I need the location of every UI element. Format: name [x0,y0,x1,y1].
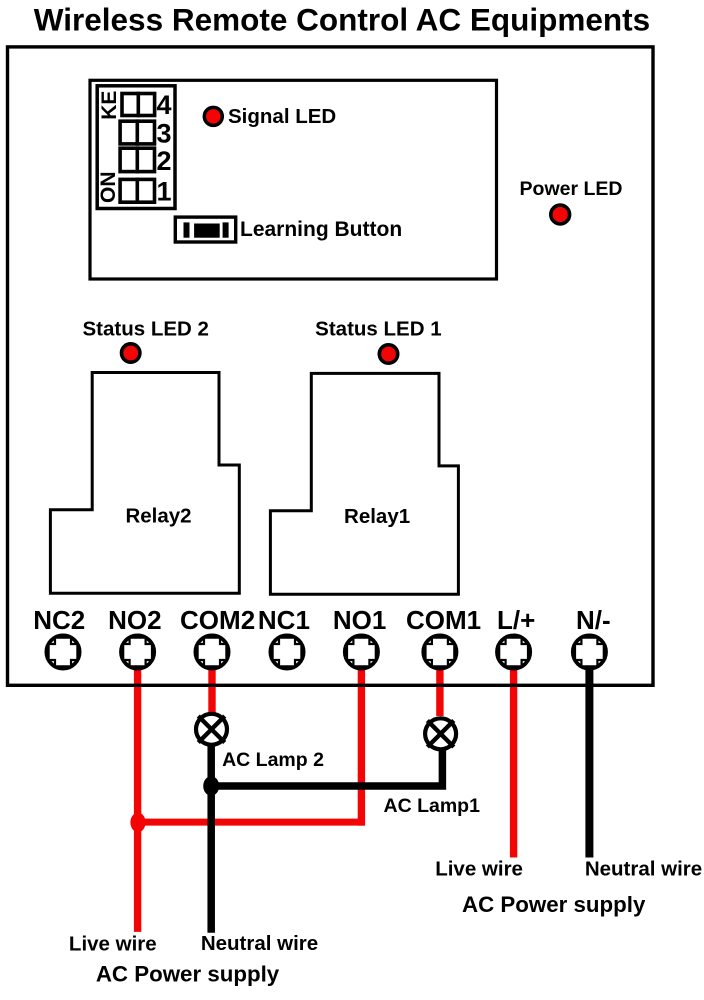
svg-text:L/+: L/+ [497,605,535,635]
svg-text:NC2: NC2 [33,605,85,635]
DIP switch row 3 [120,121,154,144]
relay K1 outline [270,373,458,594]
terminal NO1 [345,635,378,668]
svg-text:3: 3 [156,118,171,148]
wire NO1 live (red) [358,652,365,826]
svg-text:Neutral wire: Neutral wire [201,932,318,955]
control panel inner box [90,80,497,279]
svg-text:NC1: NC1 [258,605,310,635]
svg-text:Neutral wire: Neutral wire [585,857,702,880]
svg-text:N/-: N/- [576,605,611,635]
DIP switch row 1 [120,179,154,202]
svg-text:NO1: NO1 [333,605,386,635]
DIP switch row 4 [122,94,155,116]
terminal COM2 [195,635,228,668]
svg-text:Wireless Remote Control AC Equ: Wireless Remote Control AC Equipments [34,2,650,38]
wire lamp1 neutral (black L-shape) [211,745,442,786]
power LED [551,205,570,224]
junction red node [130,813,145,833]
svg-text:Learning Button: Learning Button [240,218,402,241]
svg-text:Relay2: Relay2 [125,505,191,528]
status LED 2 [122,344,140,362]
svg-text:Live wire: Live wire [69,933,157,956]
terminal N/- [573,635,606,668]
svg-text:COM1: COM1 [406,605,481,635]
svg-text:1: 1 [156,177,171,207]
lamp EL2 (AC Lamp 2) [196,714,227,745]
svg-text:AC Power supply: AC Power supply [462,892,646,917]
junction black node [203,776,219,796]
svg-text:KE: KE [98,91,121,120]
svg-text:AC Lamp 2: AC Lamp 2 [222,749,324,771]
svg-text:AC Power supply: AC Power supply [96,962,280,987]
terminal NC2 [46,635,79,668]
wire NO2 live (red, left vertical) [134,652,141,932]
svg-text:Status LED 1: Status LED 1 [315,318,441,341]
lamp EL1 (AC Lamp1) [425,718,456,749]
wire red bus horizontal [138,819,365,826]
wire COM2 to lamp2 (red) [208,652,215,713]
DIP switch S1 block [97,86,175,209]
svg-text:NO2: NO2 [108,605,161,635]
wire COM1 to lamp1 (red) [436,652,443,716]
svg-text:Power LED: Power LED [520,178,623,200]
terminal NO2 [121,635,154,668]
status LED 1 [379,345,397,363]
svg-text:ON: ON [97,171,120,203]
svg-text:Status LED 2: Status LED 2 [82,318,208,341]
wire N/- neutral (black) [585,652,593,858]
svg-text:4: 4 [156,90,171,120]
svg-text:Relay1: Relay1 [344,505,410,528]
svg-text:AC Lamp1: AC Lamp1 [384,795,481,817]
enclosure outer box [8,47,654,685]
svg-text:Live wire: Live wire [435,858,523,881]
wire L/+ live (red) [510,652,517,858]
wire lamp2 neutral (black vertical) [207,729,215,933]
signal LED [204,107,222,125]
svg-text:2: 2 [156,146,171,176]
DIP switch row 2 [120,148,154,171]
svg-text:Signal LED: Signal LED [228,105,336,128]
terminal NC1 [270,635,303,668]
terminal L/+ [497,635,530,668]
terminal COM1 [423,635,456,668]
svg-text:COM2: COM2 [180,605,255,635]
learning button SW1 [175,217,235,242]
relay K2 outline [50,373,239,594]
